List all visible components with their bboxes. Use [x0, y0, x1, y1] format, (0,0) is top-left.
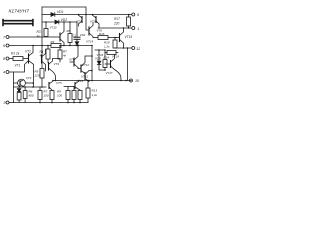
svg-text:VT14: VT14: [86, 39, 94, 43]
wire mid link: [64, 86, 74, 88]
svg-text:4: 4: [3, 71, 5, 75]
svg-text:4к: 4к: [37, 34, 41, 38]
transistor VT15: [116, 27, 132, 49]
svg-text:VT17: VT17: [106, 71, 113, 75]
svg-text:R17: R17: [114, 17, 120, 21]
resistor R11: [72, 91, 76, 100]
resistor R5a: [23, 91, 27, 99]
wire rail B: [42, 14, 131, 16]
resistor R10: [86, 88, 90, 98]
svg-text:VT5: VT5: [56, 81, 62, 85]
wire top rail: [42, 7, 86, 15]
transistor VT18: [105, 55, 122, 82]
wire sub-block top: [95, 49, 105, 51]
svg-text:VD1: VD1: [57, 10, 64, 14]
svg-text:800: 800: [29, 94, 34, 98]
chassis double-line symbol: [3, 20, 33, 26]
pin 9: [132, 13, 135, 16]
svg-text:220: 220: [113, 22, 120, 26]
resistor R14: [103, 60, 107, 68]
resistor R7: [58, 50, 62, 59]
resistor R9 in rail: [51, 44, 61, 48]
resistor R6b: [38, 91, 42, 100]
svg-text:8: 8: [3, 57, 5, 61]
transistor VT7: [76, 14, 82, 26]
resistor R16: [98, 36, 108, 40]
transistor VT4: [46, 21, 65, 46]
wire rail C: [42, 21, 77, 23]
transistor VT1: [15, 45, 34, 87]
pin 12: [115, 47, 131, 49]
pin 6: [6, 44, 9, 47]
wire lower-left link: [14, 86, 47, 88]
svg-text:VT18: VT18: [112, 55, 119, 59]
svg-text:VT19: VT19: [76, 79, 84, 83]
diode VD1: [51, 13, 55, 17]
resistor R9b: [66, 91, 70, 100]
pin 3: [6, 101, 9, 104]
svg-text:100: 100: [44, 94, 49, 98]
transistor VT11: [78, 55, 93, 73]
svg-text:9: 9: [137, 13, 139, 17]
pin 10: [130, 79, 133, 82]
resistor R5: [40, 69, 44, 79]
svg-text:12: 12: [136, 47, 140, 51]
wire out rail lower: [53, 80, 131, 82]
svg-text:R9: R9: [51, 40, 55, 44]
resistor R7b: [50, 91, 54, 100]
resistor R3: [44, 29, 48, 37]
svg-text:VT3: VT3: [54, 62, 60, 66]
pin 4: [6, 71, 9, 74]
resistor R18: [113, 40, 117, 48]
pin 8: [6, 57, 9, 60]
svg-text:VT12: VT12: [81, 75, 89, 79]
transistor VT9: [90, 14, 99, 28]
svg-text:100: 100: [57, 94, 62, 98]
wire output bus: [127, 48, 129, 81]
transistor VT6: [49, 80, 62, 91]
svg-text:10: 10: [135, 79, 139, 83]
svg-text:6: 6: [3, 44, 5, 48]
capacitor C1: [76, 22, 78, 37]
transistor VT6: [85, 14, 102, 38]
svg-text:R16: R16: [99, 32, 105, 36]
wire vertical bus: [41, 7, 43, 69]
transistor VT8: [69, 45, 79, 68]
svg-text:VT2: VT2: [25, 50, 31, 54]
pin 1: [98, 27, 131, 29]
diode VD3: [17, 89, 21, 92]
svg-text:VT15: VT15: [125, 35, 133, 39]
svg-text:VD4: VD4: [95, 57, 101, 61]
transistor VT19: [75, 79, 84, 90]
transistor VT2: [41, 50, 45, 72]
svg-text:R1 2к: R1 2к: [11, 52, 20, 56]
wire bottom rail: [14, 102, 89, 104]
svg-text:R3: R3: [37, 30, 41, 34]
resistor R6: [68, 34, 72, 43]
diode VD2: [55, 20, 59, 24]
svg-text:VT1: VT1: [15, 64, 21, 68]
svg-text:R14: R14: [104, 55, 110, 59]
svg-text:VT11: VT11: [82, 63, 89, 67]
pin 7: [6, 36, 9, 39]
transistor VT4 circled: [14, 76, 34, 87]
resistor R2: [17, 93, 21, 101]
svg-text:220: 220: [34, 73, 40, 77]
transistor VT12: [81, 70, 93, 82]
resistor R15: [107, 51, 116, 55]
svg-text:1: 1: [137, 27, 139, 31]
svg-text:VT8: VT8: [69, 57, 75, 61]
svg-text:К174УН7: К174УН7: [9, 9, 30, 15]
diode VD4: [97, 61, 101, 64]
svg-text:С1: С1: [73, 33, 77, 37]
svg-text:3: 3: [3, 101, 5, 105]
svg-text:VT4: VT4: [26, 76, 32, 80]
node vertical x93: [91, 46, 93, 81]
resistor R17: [127, 17, 131, 26]
resistor R4: [46, 49, 50, 59]
transistor VT3: [49, 59, 61, 82]
svg-text:VT10: VT10: [50, 26, 57, 30]
svg-text:VD3: VD3: [80, 33, 86, 37]
svg-text:R8: R8: [67, 29, 71, 33]
resistor R12: [78, 91, 82, 100]
svg-text:1,2к: 1,2к: [104, 44, 110, 48]
svg-text:1,2к: 1,2к: [92, 93, 98, 97]
diode VD3b: [75, 42, 79, 45]
